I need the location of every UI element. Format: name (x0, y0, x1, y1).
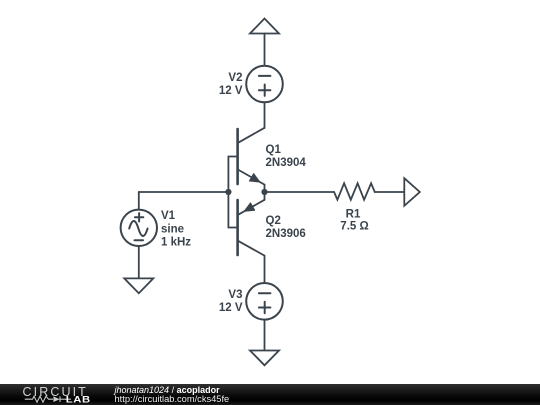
svg-text:R1: R1 (346, 209, 361, 221)
wire V1 to base (139, 191, 229, 193)
wire VCC to V2 (264, 34, 266, 66)
svg-text:V2: V2 (228, 72, 242, 84)
ground (V3) (250, 351, 279, 366)
wire V3 to ground (264, 320, 266, 351)
wire V2 to Q1 collector (264, 102, 266, 128)
svg-text:7.5 Ω: 7.5 Ω (340, 220, 368, 232)
wire base stub Q2 (228, 227, 237, 229)
svg-text:1 kHz: 1 kHz (161, 237, 191, 249)
wire base vertical (227, 157, 229, 228)
svg-text:2N3904: 2N3904 (266, 157, 307, 169)
voltage source V2 (246, 66, 283, 103)
wire R1 to output port (375, 191, 405, 193)
wire Q2 collector to V3 (264, 256, 266, 283)
svg-text:LAB: LAB (66, 395, 91, 405)
transistor Q2 (2N3906 PNP) (238, 192, 265, 256)
svg-text:Q1: Q1 (266, 144, 282, 156)
power flag VCC arrow (250, 19, 279, 34)
footer logo CIRCUIT LAB (0, 384, 110, 405)
voltage source V1 (sine) (121, 210, 157, 246)
svg-text:V3: V3 (228, 289, 242, 301)
node base junction (225, 189, 231, 195)
svg-text:12 V: 12 V (219, 302, 243, 314)
wire base stub Q1 (228, 156, 237, 158)
wire V1 to ground (138, 246, 140, 278)
footer credit line (115, 386, 220, 395)
footer bar (0, 384, 540, 405)
svg-text:V1: V1 (161, 210, 176, 222)
transistor Q1 (2N3904 NPN) (238, 128, 265, 192)
wire emitter node to R1 (265, 191, 335, 193)
node emitter junction (261, 189, 267, 195)
svg-text:12 V: 12 V (219, 85, 243, 97)
resistor R1 (334, 183, 375, 199)
wire V1 top lead (138, 192, 140, 210)
svg-text:2N3906: 2N3906 (266, 228, 306, 240)
output port flag (404, 178, 420, 206)
ground (V1) (124, 278, 153, 293)
svg-text:Q2: Q2 (266, 215, 281, 227)
voltage source V3 (246, 283, 283, 320)
svg-text:sine: sine (161, 223, 184, 235)
footer url line (115, 395, 230, 404)
